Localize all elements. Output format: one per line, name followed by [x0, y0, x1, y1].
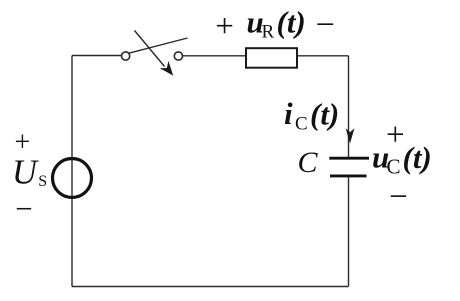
svg-text:−: − — [316, 7, 335, 44]
svg-text:C: C — [387, 155, 401, 179]
svg-text:i: i — [284, 96, 293, 131]
svg-text:(t): (t) — [310, 97, 339, 132]
svg-text:+: + — [386, 117, 405, 153]
svg-text:U: U — [12, 153, 39, 191]
svg-text:S: S — [38, 173, 47, 190]
svg-text:−: − — [389, 179, 408, 215]
svg-text:−: − — [15, 191, 32, 226]
svg-text:C: C — [295, 113, 308, 134]
svg-text:C: C — [298, 146, 319, 179]
svg-text:(t): (t) — [403, 140, 432, 175]
svg-text:+: + — [15, 127, 31, 158]
svg-text:(t): (t) — [277, 5, 306, 40]
svg-text:+: + — [215, 9, 234, 45]
svg-text:R: R — [262, 22, 275, 43]
